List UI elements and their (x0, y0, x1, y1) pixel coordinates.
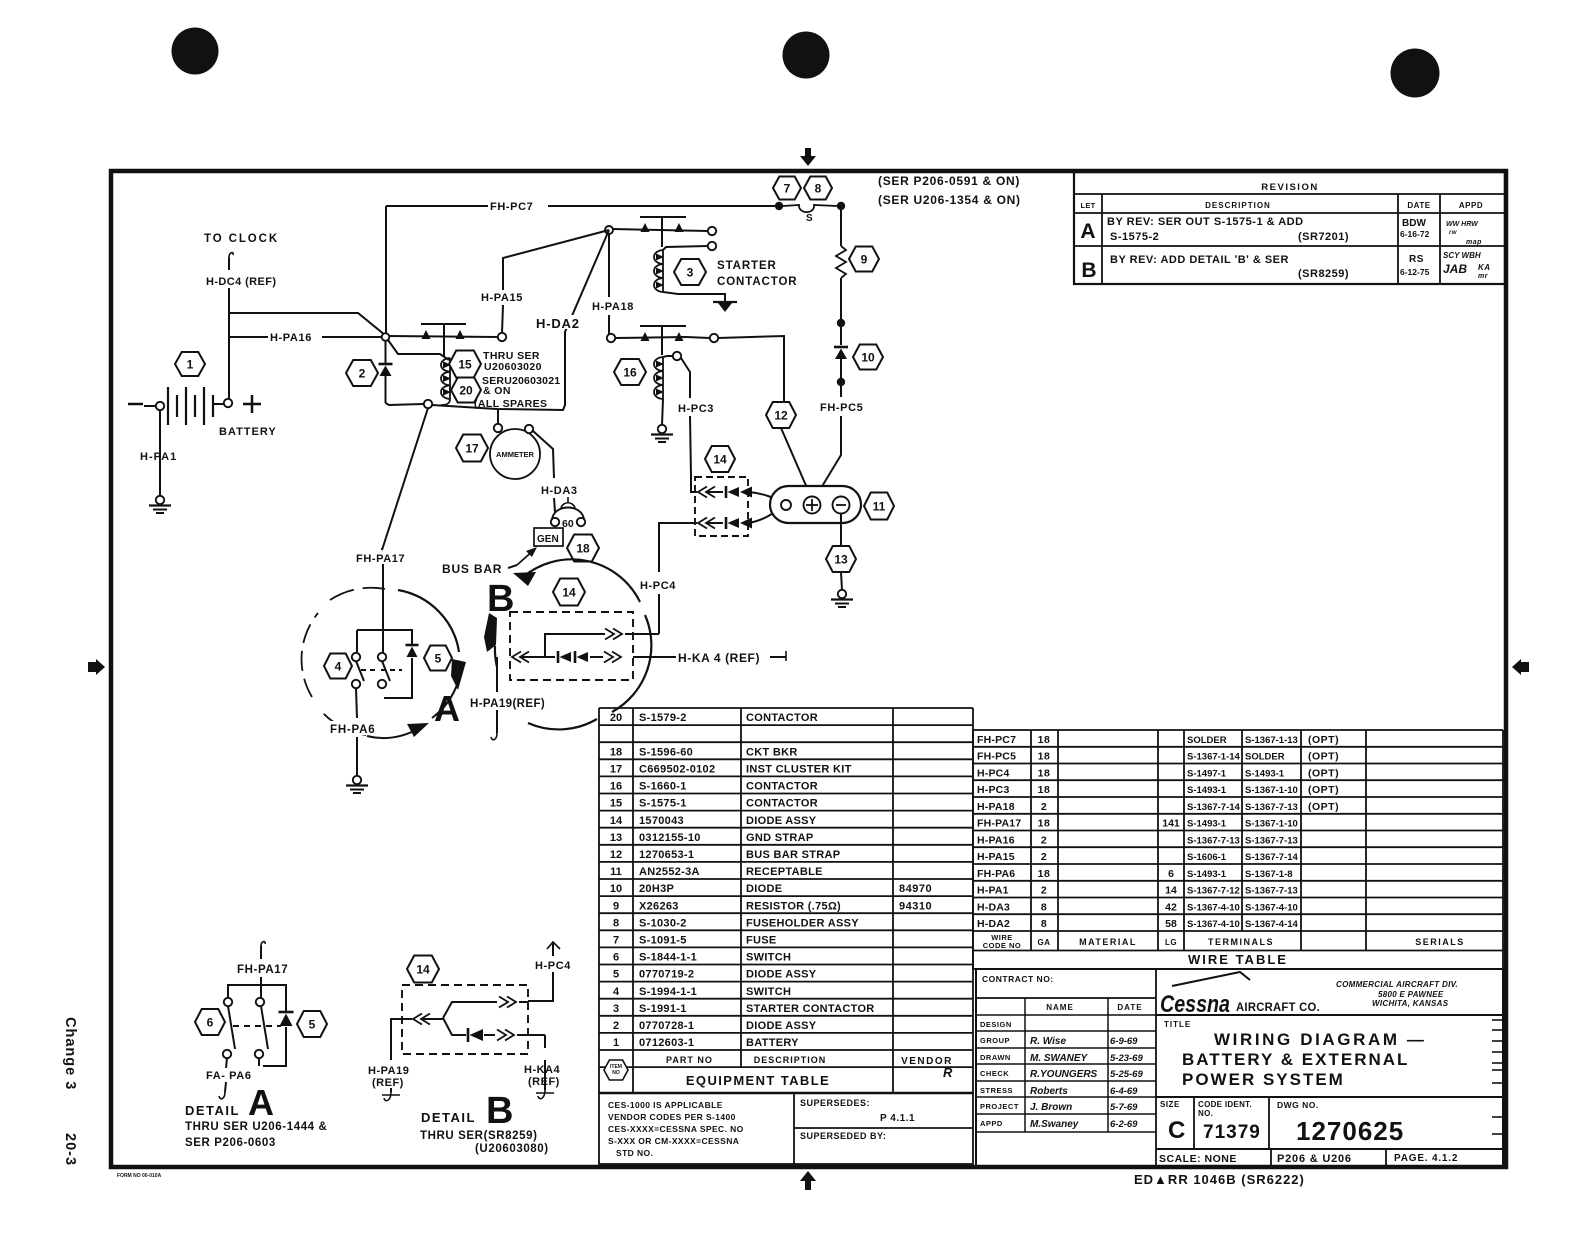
detail A bottom switch blades (228, 1006, 235, 1049)
svg-text:9: 9 (613, 900, 619, 912)
svg-text:A: A (1080, 220, 1095, 243)
svg-text:PROJECT: PROJECT (980, 1102, 1019, 1111)
ground at receptacle (838, 590, 846, 598)
svg-text:H-PA1: H-PA1 (140, 451, 177, 463)
bottom edge arrow marker (800, 1171, 816, 1181)
svg-text:58: 58 (1165, 918, 1177, 930)
svg-text:STARTER: STARTER (717, 260, 777, 272)
svg-text:S-1367-4-10: S-1367-4-10 (1187, 919, 1240, 930)
detail B bottom callout 14 (407, 956, 439, 983)
svg-text:18: 18 (1038, 751, 1051, 763)
size code dwg row (1156, 1096, 1503, 1098)
svg-text:GND STRAP: GND STRAP (746, 832, 813, 844)
drawing border frame (111, 171, 1506, 1167)
fuseholder callout 8 (804, 177, 832, 200)
svg-text:TERMINALS: TERMINALS (1208, 937, 1274, 947)
switch callout 4 (324, 654, 352, 679)
svg-text:16: 16 (623, 365, 637, 379)
svg-text:S-1091-5: S-1091-5 (639, 935, 687, 947)
svg-text:CHECK: CHECK (980, 1069, 1009, 1078)
fuse callout 7 (773, 177, 801, 200)
battery B1 callout 1 (175, 352, 205, 376)
wire diode to terminal to spares run (386, 403, 424, 405)
svg-text:S-1575-2: S-1575-2 (1110, 231, 1159, 243)
svg-text:X26263: X26263 (639, 900, 679, 912)
wire right contact line (686, 337, 710, 338)
svg-text:C: C (1168, 1117, 1185, 1144)
svg-text:RESISTOR (.75Ω): RESISTOR (.75Ω) (746, 900, 841, 912)
wire FH-PC7 horizontal (386, 205, 488, 207)
battery positive terminal (224, 399, 232, 407)
svg-text:4: 4 (613, 986, 620, 998)
svg-text:18: 18 (576, 541, 590, 555)
svg-text:U20603020: U20603020 (484, 361, 542, 373)
revision table frame (1074, 172, 1505, 284)
svg-text:H-PA16: H-PA16 (270, 332, 312, 344)
svg-text:18: 18 (610, 746, 622, 758)
svg-text:1570043: 1570043 (639, 815, 684, 827)
svg-text:94310: 94310 (899, 900, 932, 912)
svg-text:(ALL SPARES: (ALL SPARES (474, 398, 547, 410)
svg-text:THRU SER(SR8259): THRU SER(SR8259) (420, 1130, 538, 1142)
wire coil 16 bottom to ground (662, 399, 663, 425)
node FH-PC5 top (837, 202, 845, 210)
wire minus to ground strap (840, 514, 842, 545)
ckt bkr callout 18 (567, 535, 599, 562)
ground at contactor 16 (658, 425, 666, 433)
svg-text:16: 16 (610, 781, 622, 793)
wire H-PA16 battery to junction (229, 336, 268, 338)
label H-PC4 bottom (534, 958, 578, 971)
svg-text:FH-PA17: FH-PA17 (237, 964, 288, 976)
battery contactor K3 T-bar (421, 323, 466, 325)
armature line left (389, 336, 497, 337)
svg-text:14: 14 (562, 585, 576, 599)
wire left contact to triangle (615, 337, 686, 338)
svg-text:11: 11 (610, 866, 622, 878)
wire break hook H-PA19 bottom (384, 1092, 391, 1101)
svg-text:14: 14 (713, 452, 727, 466)
svg-text:CONTACTOR: CONTACTOR (746, 781, 818, 793)
svg-text:AMMETER: AMMETER (496, 450, 534, 459)
svg-text:WW HRW: WW HRW (1446, 221, 1479, 228)
receptacle pilot terminal (781, 500, 791, 510)
svg-text:H-DA3: H-DA3 (977, 901, 1010, 913)
svg-text:LG: LG (1165, 938, 1177, 947)
svg-text:17: 17 (465, 441, 479, 455)
svg-text:ED▲RR 1046B (SR6222): ED▲RR 1046B (SR6222) (1134, 1172, 1305, 1187)
wire break tick to clock (229, 253, 233, 258)
wire H-PA18 junction to contactor 16 (608, 234, 610, 297)
svg-text:S-1367-7-13: S-1367-7-13 (1245, 802, 1298, 813)
inst cluster callout 17 (456, 435, 488, 462)
fuseholder F2 dome (552, 508, 584, 522)
svg-text:2: 2 (1041, 885, 1047, 897)
node FH-PC7 at fuse (775, 202, 783, 210)
contactor 15 armature terminal (498, 333, 506, 341)
svg-text:6-12-75: 6-12-75 (1400, 267, 1430, 277)
svg-text:CES-1000 IS APPLICABLE: CES-1000 IS APPLICABLE (608, 1100, 723, 1110)
label H-DA2 (535, 315, 591, 329)
svg-text:M.Swaney: M.Swaney (1030, 1119, 1079, 1130)
svg-text:R. Wise: R. Wise (1030, 1036, 1066, 1047)
wire coil top to contact (663, 246, 708, 250)
svg-text:S-1367-7-14: S-1367-7-14 (1245, 852, 1299, 863)
wire H-PA19 drop (496, 657, 498, 692)
diode assy top row arrows (698, 487, 707, 498)
svg-text:20-3: 20-3 (62, 1133, 78, 1166)
svg-text:BDW: BDW (1402, 218, 1426, 229)
label FH-PA6 (329, 721, 389, 735)
svg-text:FA- PA6: FA- PA6 (206, 1070, 252, 1082)
label H-DA3 (540, 483, 586, 496)
svg-text:(OPT): (OPT) (1308, 751, 1339, 763)
svg-text:S-1493-1: S-1493-1 (1187, 819, 1227, 830)
svg-text:8: 8 (1041, 901, 1047, 913)
svg-text:S-1367-7-14: S-1367-7-14 (1187, 802, 1241, 813)
title block tick marks (1492, 1019, 1503, 1021)
svg-text:(SR7201): (SR7201) (1298, 231, 1349, 243)
svg-text:SWITCH: SWITCH (746, 952, 791, 964)
diode CR2 on junction drop (385, 341, 387, 363)
equipment notes box (599, 1093, 973, 1164)
svg-text:18: 18 (1038, 734, 1051, 746)
right edge arrow marker (1512, 659, 1521, 675)
switch dashed link (361, 669, 379, 671)
svg-text:BY REV: SER OUT S-1575-1 &: BY REV: SER OUT S-1575-1 & ADD (1107, 216, 1304, 228)
bus bar leader arrow to GEN (508, 565, 517, 568)
svg-text:C669502-0102: C669502-0102 (639, 764, 715, 776)
svg-text:APPD: APPD (980, 1119, 1003, 1128)
registration dot right (1391, 49, 1440, 98)
generator GEN box (534, 528, 563, 546)
svg-text:SUPERSEDES:: SUPERSEDES: (800, 1098, 870, 1108)
svg-text:TITLE: TITLE (1164, 1020, 1191, 1029)
node below resistor (837, 319, 845, 327)
contactor terminal circle (424, 400, 432, 408)
svg-text:A: A (248, 1082, 274, 1123)
wire FH-PC5 upper segment (840, 206, 842, 246)
svg-text:H-PC4: H-PC4 (977, 767, 1010, 779)
battery plus sign (243, 403, 261, 406)
wire to-clock branch upper (229, 313, 385, 335)
svg-text:FORM NO 00-010A: FORM NO 00-010A (117, 1173, 162, 1179)
detail A bottom dashed link (233, 1025, 281, 1027)
svg-text:DIODE ASSY: DIODE ASSY (746, 815, 817, 827)
svg-text:RS: RS (1409, 254, 1424, 265)
svg-text:BATTERY: BATTERY (746, 1037, 799, 1049)
svg-text:S-1367-7-12: S-1367-7-12 (1187, 886, 1240, 897)
svg-text:20: 20 (459, 383, 473, 397)
contactor 16 coil (662, 357, 664, 399)
wire bottom row exit left (659, 523, 697, 572)
wire junction to armature (613, 229, 708, 231)
svg-text:NO.: NO. (1198, 1109, 1213, 1118)
receptacle callout 11 (864, 493, 894, 520)
wire FH-PA17 diagonal (382, 408, 428, 550)
label H-PC4 upper (639, 578, 685, 591)
svg-text:mr: mr (1478, 273, 1489, 280)
svg-text:B: B (1081, 259, 1096, 282)
ground at battery (156, 496, 164, 504)
svg-text:REVISION: REVISION (1261, 182, 1318, 193)
wire H-PA15 (502, 305, 503, 333)
svg-text:12: 12 (610, 849, 622, 861)
diode callout 10 (853, 345, 883, 370)
svg-text:18: 18 (1038, 767, 1051, 779)
ammeter terminals (494, 424, 502, 432)
detail B bottom: H-PC4 arrow (547, 942, 560, 949)
svg-text:5-23-69: 5-23-69 (1110, 1053, 1143, 1064)
detail 14 circle callout (553, 579, 585, 606)
registration dot left (172, 28, 219, 75)
svg-text:0770719-2: 0770719-2 (639, 969, 694, 981)
svg-text:PART NO: PART NO (666, 1055, 713, 1065)
svg-text:10: 10 (861, 350, 875, 364)
svg-text:WIRE TABLE: WIRE TABLE (1188, 952, 1288, 967)
svg-text:SUPERSEDED BY:: SUPERSEDED BY: (800, 1131, 886, 1141)
ammeter M1 body (490, 429, 540, 479)
wire break hook FA-PA6 (219, 1092, 225, 1099)
svg-text:H-PC3: H-PC3 (678, 403, 714, 415)
starter contactor contact terminal upper (708, 227, 716, 235)
svg-text:S-1367-1-10: S-1367-1-10 (1245, 819, 1298, 830)
label FH-PC5 (818, 400, 876, 413)
svg-text:H-PA18: H-PA18 (592, 301, 634, 313)
svg-text:H-PC4: H-PC4 (535, 960, 571, 972)
wire 12 to receptacle plus (781, 428, 811, 497)
svg-text:5-7-69: 5-7-69 (1110, 1102, 1138, 1113)
detail A pointer arrowhead (451, 659, 466, 690)
svg-text:S-1497-1: S-1497-1 (1187, 768, 1227, 779)
svg-text:BATTERY & EXTERNAL: BATTERY & EXTERNAL (1182, 1050, 1409, 1069)
diode assy bottom row arrows (698, 518, 707, 529)
label FH-PA17 bottom (236, 962, 298, 975)
svg-text:6: 6 (1168, 868, 1174, 880)
svg-text:CES-XXXX=CESSNA SPEC. NO: CES-XXXX=CESSNA SPEC. NO (608, 1124, 744, 1134)
master switch S1 box (357, 630, 412, 644)
svg-text:18: 18 (1038, 784, 1051, 796)
detail B bottom dashed box (402, 985, 528, 1054)
svg-text:(SER U206-1354 & ON): (SER U206-1354 & ON) (878, 193, 1021, 207)
svg-text:CODE IDENT.: CODE IDENT. (1198, 1100, 1252, 1109)
svg-text:R: R (943, 1065, 953, 1080)
svg-text:5: 5 (435, 651, 442, 665)
svg-text:POWER SYSTEM: POWER SYSTEM (1182, 1070, 1345, 1089)
svg-text:NAME: NAME (1046, 1003, 1074, 1012)
svg-text:DRAWN: DRAWN (980, 1053, 1011, 1062)
svg-text:THRU SER U206-1444 &: THRU SER U206-1444 & (185, 1121, 327, 1133)
detail A curved arrow (367, 730, 416, 738)
svg-text:SER P206-0603: SER P206-0603 (185, 1137, 276, 1149)
svg-text:(OPT): (OPT) (1308, 767, 1339, 779)
svg-text:20: 20 (610, 712, 622, 724)
svg-text:10: 10 (610, 883, 622, 895)
svg-text:S-1493-1: S-1493-1 (1245, 768, 1285, 779)
wire bottom row to receptacle plus (748, 506, 782, 523)
svg-text:CONTACTOR: CONTACTOR (746, 712, 818, 724)
svg-text:TO CLOCK: TO CLOCK (204, 233, 279, 245)
svg-text:DIODE ASSY: DIODE ASSY (746, 969, 817, 981)
svg-text:84970: 84970 (899, 883, 932, 895)
detail B circle arc (523, 559, 640, 602)
svg-text:LET: LET (1080, 201, 1095, 210)
battery contactor contact triangles (422, 330, 431, 339)
svg-text:S-1844-1-1: S-1844-1-1 (639, 952, 697, 964)
svg-text:(OPT): (OPT) (1308, 734, 1339, 746)
svg-text:BATTERY: BATTERY (219, 426, 277, 438)
svg-text:H-DA2: H-DA2 (977, 918, 1010, 930)
svg-text:6: 6 (613, 952, 619, 964)
fuse F1 symbol (783, 205, 837, 212)
svg-text:15: 15 (458, 357, 472, 371)
svg-text:SOLDER: SOLDER (1245, 752, 1285, 763)
svg-text:(OPT): (OPT) (1308, 801, 1339, 813)
svg-text:FH-PC5: FH-PC5 (977, 751, 1016, 763)
svg-text:S-1575-1: S-1575-1 (639, 798, 687, 810)
wire H-DA3 ammeter to fuseholder (533, 431, 554, 478)
title block frame (976, 969, 1503, 1166)
svg-text:WICHITA, KANSAS: WICHITA, KANSAS (1372, 999, 1449, 1008)
svg-text:SCY WBH: SCY WBH (1443, 251, 1481, 260)
svg-text:S-1030-2: S-1030-2 (639, 917, 687, 929)
svg-text:GROUP: GROUP (980, 1036, 1010, 1045)
svg-text:STARTER CONTACTOR: STARTER CONTACTOR (746, 1003, 875, 1015)
node junction H-PA16 / FH-PC7 (382, 333, 390, 341)
detail B bottom top row (443, 1002, 497, 1018)
svg-text:CKT BKR: CKT BKR (746, 746, 798, 758)
svg-text:WIRING DIAGRAM —: WIRING DIAGRAM — (1214, 1030, 1427, 1049)
svg-text:rw: rw (1449, 230, 1457, 236)
svg-text:H-DA3: H-DA3 (541, 485, 578, 497)
diode CR3 detail A (406, 644, 419, 647)
svg-text:COMMERCIAL AIRCRAFT DIV.: COMMERCIAL AIRCRAFT DIV. (1336, 980, 1458, 989)
svg-text:CODE NO: CODE NO (983, 941, 1022, 950)
external power receptacle J1 body (770, 486, 861, 523)
battery contactor coil 15/20 (449, 358, 451, 399)
svg-text:FH-PC7: FH-PC7 (977, 734, 1016, 746)
svg-text:8: 8 (815, 181, 822, 195)
svg-text:9: 9 (861, 252, 868, 266)
battery B1 plates (167, 387, 169, 425)
starter contactor coil (662, 250, 664, 292)
diode callout 5 (424, 646, 452, 671)
svg-text:14: 14 (610, 815, 623, 827)
svg-text:SOLDER: SOLDER (1187, 735, 1227, 746)
diode assembly 14 callout (705, 446, 735, 472)
diode callout 5 bottom (297, 1011, 327, 1037)
svg-text:H-PA18: H-PA18 (977, 801, 1015, 813)
receptacle plus terminal (804, 497, 821, 514)
wire H-PA19 drop bottom (391, 1019, 412, 1060)
signature table (976, 1014, 1156, 1016)
battery negative terminal (144, 405, 156, 407)
wire FH-PA6 from switch (356, 688, 357, 718)
svg-text:S: S (806, 213, 813, 224)
resistor R1 (.75 ohm) zigzag (836, 246, 846, 278)
starter contactor contact terminal lower (708, 242, 716, 250)
wire drop to ammeter left (497, 409, 499, 423)
detail A bottom switch terminals (224, 998, 232, 1006)
svg-text:Change 3: Change 3 (62, 1017, 78, 1090)
svg-text:8: 8 (1041, 918, 1047, 930)
svg-text:(REF): (REF) (528, 1076, 560, 1088)
svg-text:map: map (1466, 239, 1482, 246)
label FH-PA17 (355, 551, 412, 564)
svg-text:H-PA15: H-PA15 (977, 851, 1015, 863)
svg-text:DIODE ASSY: DIODE ASSY (746, 1020, 817, 1032)
svg-text:S-1367-1-10: S-1367-1-10 (1245, 785, 1298, 796)
svg-text:DATE: DATE (1117, 1003, 1142, 1012)
wire top row to receptacle small circle (748, 492, 782, 503)
contactor 16 callout 16 (614, 359, 646, 385)
svg-text:SCALE: NONE: SCALE: NONE (1159, 1153, 1237, 1165)
svg-text:AIRCRAFT CO.: AIRCRAFT CO. (1236, 1002, 1320, 1014)
svg-text:S-1660-1: S-1660-1 (639, 781, 687, 793)
svg-text:0312155-10: 0312155-10 (639, 832, 701, 844)
svg-text:(OPT): (OPT) (1308, 784, 1339, 796)
top edge arrow marker (800, 156, 816, 166)
svg-text:M. SWANEY: M. SWANEY (1030, 1053, 1089, 1064)
svg-text:VENDOR CODES PER S-1400: VENDOR CODES PER S-1400 (608, 1112, 736, 1122)
wire H-PC3 to diode assy (681, 358, 690, 398)
ground strap callout 13 (826, 546, 856, 572)
detail B up arrow (484, 613, 497, 652)
contactor 16 contact triangles (641, 332, 650, 341)
svg-text:1: 1 (613, 1037, 619, 1049)
svg-text:71379: 71379 (1203, 1122, 1261, 1143)
svg-text:2: 2 (613, 1020, 619, 1032)
svg-text:6-16-72: 6-16-72 (1400, 229, 1430, 239)
svg-text:A: A (434, 688, 460, 729)
svg-text:3: 3 (687, 265, 694, 279)
svg-text:H-PA16: H-PA16 (977, 834, 1015, 846)
switch blades detail A (356, 661, 364, 681)
switch terminals detail A (352, 653, 360, 661)
svg-text:1: 1 (187, 357, 194, 371)
svg-text:141: 141 (1162, 818, 1180, 830)
resistor callout 9 (849, 247, 879, 272)
svg-text:0712603-1: 0712603-1 (639, 1037, 694, 1049)
svg-text:S-1367-4-10: S-1367-4-10 (1245, 902, 1298, 913)
detail A bottom: FH-PA17 stub (261, 942, 265, 946)
svg-text:6: 6 (207, 1015, 214, 1029)
svg-text:J. Brown: J. Brown (1030, 1102, 1072, 1113)
svg-text:2: 2 (1041, 851, 1047, 863)
svg-text:FH-PC7: FH-PC7 (490, 201, 533, 213)
contactor K2 (16) armature T-bar (640, 325, 686, 327)
svg-text:5800 E PAWNEE: 5800 E PAWNEE (1378, 990, 1444, 999)
svg-text:BUS BAR STRAP: BUS BAR STRAP (746, 849, 840, 861)
switch callout 6 (195, 1009, 225, 1035)
svg-text:(REF): (REF) (372, 1077, 404, 1089)
contactor 16 aux contact terminal (673, 352, 681, 360)
wire H-KA4 line (633, 656, 676, 658)
svg-text:12: 12 (774, 408, 788, 422)
svg-text:DIODE: DIODE (746, 883, 782, 895)
svg-text:S-1367-4-14: S-1367-4-14 (1245, 919, 1299, 930)
battery minus sign (128, 403, 143, 406)
svg-text:Roberts: Roberts (1030, 1086, 1068, 1097)
detail B dashed box (510, 612, 633, 680)
svg-text:2: 2 (1041, 801, 1047, 813)
wire coil 16 top to aux terminal (663, 356, 673, 357)
svg-text:S-1606-1: S-1606-1 (1187, 852, 1227, 863)
starter contactor callout 3 (674, 259, 706, 285)
label H-PA18 (591, 299, 643, 312)
wire resistor to diode (840, 278, 842, 345)
svg-text:S-1994-1-1: S-1994-1-1 (639, 986, 697, 998)
